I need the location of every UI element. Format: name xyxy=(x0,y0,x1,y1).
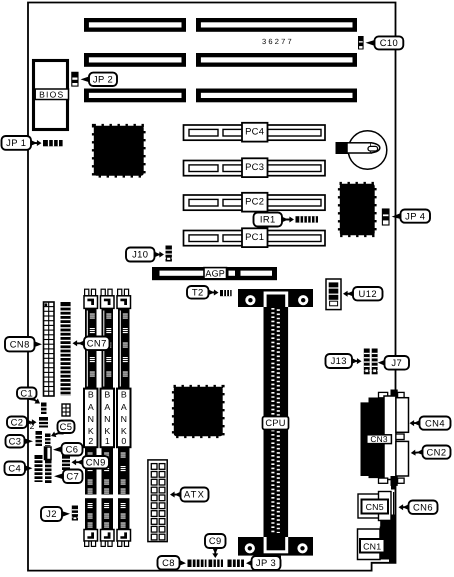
svg-text:BIOS: BIOS xyxy=(39,89,64,99)
jumper JP1 xyxy=(43,140,63,146)
label CN8 xyxy=(34,341,43,347)
label C7 xyxy=(54,473,64,479)
label C8 xyxy=(178,560,186,566)
svg-text:B: B xyxy=(104,390,110,400)
svg-text:C10: C10 xyxy=(380,37,398,48)
svg-text:C7: C7 xyxy=(66,470,79,481)
connector middle tab xyxy=(396,434,404,440)
svg-text:CN6: CN6 xyxy=(413,501,433,512)
CPU retention bracket top xyxy=(238,289,313,307)
svg-text:CN8: CN8 xyxy=(10,338,30,349)
svg-text:K: K xyxy=(121,426,127,436)
label CN7 xyxy=(73,340,86,346)
label J10 xyxy=(154,251,165,257)
label J2 xyxy=(61,511,70,517)
svg-text:J7: J7 xyxy=(391,357,402,368)
connector CN5 xyxy=(358,494,381,518)
label CN2 xyxy=(411,449,424,456)
svg-text:CN1: CN1 xyxy=(363,541,381,551)
label U12 xyxy=(343,291,354,297)
svg-text:CN2: CN2 xyxy=(427,446,447,457)
ISA slot row1 left xyxy=(84,18,186,32)
label IR1 xyxy=(281,216,294,222)
header CN8 xyxy=(44,302,55,396)
capacitor C6 xyxy=(45,447,52,460)
connector CN1 shield xyxy=(391,515,396,522)
PCI slot PC2 xyxy=(184,195,326,210)
label J13 xyxy=(351,358,362,364)
northbridge chip U1 xyxy=(94,126,144,176)
svg-text:N: N xyxy=(104,414,110,424)
header CN9 xyxy=(62,455,70,470)
connector CN3 body xyxy=(361,398,385,479)
AGP slot xyxy=(152,267,277,280)
jumper JP4 xyxy=(382,209,389,225)
capacitor C3 xyxy=(36,431,43,446)
capacitor C8 group1 xyxy=(188,560,207,568)
label CN6 xyxy=(399,504,410,510)
PCI slot PC1 xyxy=(184,231,326,246)
battery BT1 xyxy=(348,131,387,170)
header CN7 xyxy=(61,302,71,396)
IC U12 xyxy=(326,279,341,310)
motherboard outline xyxy=(28,3,396,571)
capacitor C9 group xyxy=(209,560,224,568)
label C4 xyxy=(24,465,33,471)
CPU retention bracket bottom xyxy=(238,537,313,556)
svg-text:CN5: CN5 xyxy=(366,502,384,512)
svg-text:N: N xyxy=(88,414,94,424)
PCI slot PC4 xyxy=(184,125,326,140)
label C6 xyxy=(53,446,63,452)
svg-text:J10: J10 xyxy=(132,249,148,260)
label CN9 xyxy=(72,459,84,465)
svg-text:A: A xyxy=(121,402,127,412)
connector stack bottom tabs xyxy=(379,478,388,483)
svg-text:0: 0 xyxy=(121,436,126,446)
svg-text:U12: U12 xyxy=(359,288,377,299)
jumper JP2 xyxy=(72,72,78,86)
southbridge chip U3 xyxy=(174,387,223,436)
svg-text:ATX: ATX xyxy=(184,489,205,500)
connector face plate xyxy=(384,396,396,480)
capacitor C11 xyxy=(62,404,70,416)
svg-text:JP 2: JP 2 xyxy=(93,74,113,85)
svg-text:C1: C1 xyxy=(20,387,33,398)
jumper JP3 pins xyxy=(228,560,245,568)
label CPU xyxy=(263,417,289,430)
ISA slot row1 right xyxy=(196,18,357,32)
svg-text:C6: C6 xyxy=(66,443,79,454)
svg-text:K: K xyxy=(88,426,94,436)
capacitor C4 xyxy=(35,455,43,482)
svg-text:2: 2 xyxy=(30,421,35,431)
IC chip U2 xyxy=(340,184,375,235)
svg-text:C9: C9 xyxy=(209,535,222,546)
label JP4 xyxy=(392,213,402,219)
DIMM socket BANK0 xyxy=(118,289,122,296)
CPU slot contact dots xyxy=(271,308,274,533)
svg-text:PC4: PC4 xyxy=(245,126,264,137)
label C1 xyxy=(29,395,40,404)
PCI slot PC3 xyxy=(184,161,326,176)
svg-text:B: B xyxy=(121,390,127,400)
svg-text:J2: J2 xyxy=(46,508,57,519)
svg-text:N: N xyxy=(121,414,127,424)
BIOS chip xyxy=(34,61,68,130)
svg-text:J13: J13 xyxy=(331,355,347,366)
svg-text:2: 2 xyxy=(88,436,93,446)
svg-text:IR1: IR1 xyxy=(260,214,276,225)
capacitor C1 xyxy=(41,403,47,415)
svg-text:JP 4: JP 4 xyxy=(405,210,425,221)
capacitor C5 xyxy=(45,434,51,447)
label CN4 xyxy=(410,420,421,426)
header T2 xyxy=(220,290,232,296)
capacitor C10 xyxy=(358,36,364,49)
ISA slot row3 right xyxy=(196,89,357,103)
svg-text:A: A xyxy=(104,402,110,412)
svg-text:T2: T2 xyxy=(192,287,204,298)
svg-text:A: A xyxy=(88,402,94,412)
DIMM socket BANK2 xyxy=(85,289,89,296)
label C10 xyxy=(366,40,376,46)
CPU bracket bottom tab xyxy=(254,556,282,560)
label C3 xyxy=(23,438,33,444)
svg-text:CN7: CN7 xyxy=(87,338,107,349)
svg-text:PC1: PC1 xyxy=(245,231,264,242)
svg-text:PC3: PC3 xyxy=(245,161,264,172)
svg-text:PC2: PC2 xyxy=(245,196,264,207)
svg-text:B: B xyxy=(88,390,94,400)
svg-text:C8: C8 xyxy=(162,557,175,568)
svg-text:CN4: CN4 xyxy=(425,417,445,428)
label T2 xyxy=(207,289,218,295)
power connector ATX xyxy=(148,460,167,542)
capacitor C7 xyxy=(45,460,52,484)
svg-text:JP 1: JP 1 xyxy=(6,137,26,148)
connector stack top tabs xyxy=(379,392,388,397)
label JP1 xyxy=(30,140,42,146)
connector CN2 port xyxy=(396,441,409,476)
svg-text:JP 3: JP 3 xyxy=(256,557,276,568)
svg-text:1: 1 xyxy=(105,436,110,446)
svg-text:C4: C4 xyxy=(8,462,21,473)
capacitor C2 xyxy=(39,417,48,428)
svg-text:C5: C5 xyxy=(60,421,73,432)
svg-text:K: K xyxy=(104,426,110,436)
svg-text:36277: 36277 xyxy=(262,37,294,46)
label CN3 xyxy=(367,435,392,444)
svg-text:CPU: CPU xyxy=(265,418,285,428)
label C2 xyxy=(26,419,37,425)
connector CN1 xyxy=(358,529,381,560)
svg-text:AGP: AGP xyxy=(205,268,225,278)
header IR1 xyxy=(296,216,319,222)
label C9 xyxy=(212,547,218,558)
label JP2 xyxy=(81,76,91,82)
svg-text:C2: C2 xyxy=(11,416,24,427)
label JP3 xyxy=(246,560,253,566)
connector CN4 port xyxy=(396,398,409,433)
jumper block J13-J7 xyxy=(364,349,370,375)
ISA slot row2 left xyxy=(84,53,186,67)
jumper J2 xyxy=(72,506,78,521)
CPU slot body xyxy=(264,300,289,540)
svg-text:CN9: CN9 xyxy=(86,456,106,467)
label C5 xyxy=(51,429,64,438)
ISA slot row2 right xyxy=(196,53,357,67)
ISA slot row3 left xyxy=(84,89,186,103)
DIMM socket BANK1 xyxy=(101,289,105,296)
label ATX xyxy=(170,491,182,497)
svg-text:C3: C3 xyxy=(9,435,22,446)
label J7 xyxy=(378,360,386,366)
svg-text:CN3: CN3 xyxy=(370,434,387,444)
jumper J10 xyxy=(166,246,172,262)
